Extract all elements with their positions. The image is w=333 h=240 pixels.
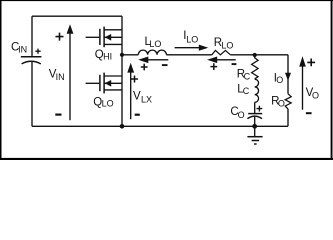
wire R_LO to output node	[230, 54, 288, 56]
svg-text:V: V	[133, 91, 141, 103]
node C_O rail junction	[252, 124, 257, 129]
node I_LO label	[183, 30, 198, 45]
node R_C label	[237, 69, 251, 82]
svg-text:IN: IN	[56, 72, 65, 82]
current arrow I_O	[285, 73, 291, 81]
svg-text:LO: LO	[186, 34, 198, 44]
inductor L_LO	[138, 50, 166, 55]
node Q_LO label	[93, 96, 113, 108]
svg-text:HI: HI	[103, 51, 112, 61]
resistor R_LO	[212, 50, 231, 54]
wire main vertical (Q_HI/Q_LO string)	[121, 16, 123, 126]
voltage polarity arrow under R_LO	[207, 57, 236, 71]
inductor L_C	[255, 79, 259, 102]
node C_IN label	[11, 41, 27, 54]
svg-text:IN: IN	[18, 45, 27, 55]
border frame	[0, 0, 333, 160]
resistor R_O	[285, 94, 291, 109]
svg-text:LO: LO	[149, 39, 161, 49]
svg-text:C: C	[244, 72, 251, 82]
wire C_O to rail	[254, 117, 256, 126]
svg-text:O: O	[238, 110, 245, 120]
wire L_C to C_O	[254, 102, 256, 113]
voltage arrow V_LX	[127, 63, 140, 119]
svg-text:LO: LO	[102, 99, 114, 109]
node R_LO label	[214, 37, 234, 51]
voltage arrow V_IN	[55, 24, 73, 120]
wire top rail	[32, 15, 122, 17]
node R_O label	[271, 96, 285, 109]
node output top junction	[253, 53, 257, 57]
node Q_HI label	[95, 49, 112, 61]
svg-text:O: O	[276, 75, 283, 85]
svg-text:O: O	[278, 99, 285, 109]
node V_IN label	[49, 68, 65, 82]
resistor R_C	[252, 57, 259, 79]
node L_LO label	[145, 36, 162, 49]
capacitor C_IN	[21, 49, 42, 64]
current arrow I_LO	[175, 45, 209, 51]
wire inductor to R_LO	[166, 54, 212, 56]
wire C_IN branch upper	[31, 16, 33, 56]
node V_LX label	[133, 91, 152, 105]
voltage polarity arrow under L_LO	[138, 57, 168, 71]
wire bottom rail	[32, 125, 288, 127]
transistor Q_LO	[86, 73, 122, 94]
wire C_IN branch lower	[31, 62, 33, 127]
node Q_LO source rail junction	[120, 124, 125, 129]
node switch node junction	[120, 53, 124, 57]
node L_C label	[237, 83, 250, 96]
svg-text:LO: LO	[221, 40, 233, 50]
svg-text:LX: LX	[141, 94, 152, 104]
wire R_O branch	[287, 55, 289, 127]
svg-text:O: O	[312, 91, 319, 101]
node V_O label	[306, 87, 319, 101]
node C_O label	[230, 106, 244, 120]
ground	[247, 126, 262, 144]
wire switch node to inductor	[122, 54, 138, 56]
capacitor C_O	[247, 106, 262, 119]
node I_O label	[274, 73, 284, 85]
transistor Q_HI	[86, 27, 122, 48]
svg-text:C: C	[243, 86, 250, 96]
voltage arrow V_O	[299, 56, 315, 113]
